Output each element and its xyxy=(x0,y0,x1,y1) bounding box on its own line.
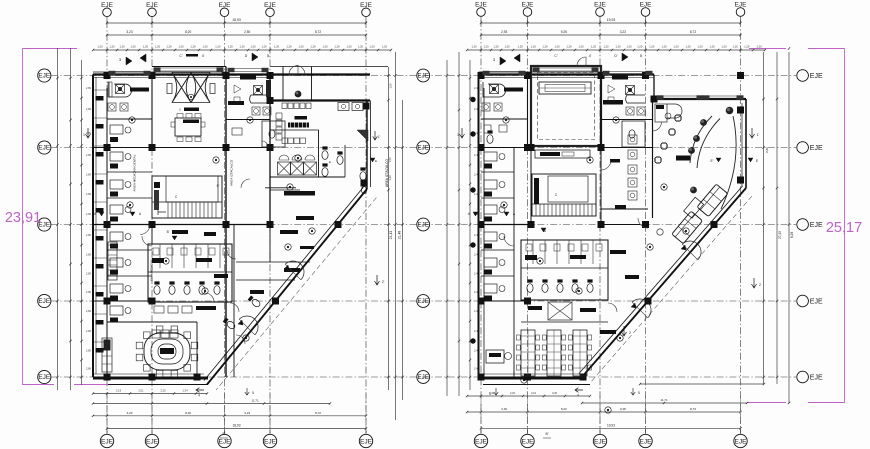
svg-text:EJE: EJE xyxy=(38,374,50,381)
svg-text:18,93: 18,93 xyxy=(232,18,241,22)
svg-text:1,20: 1,20 xyxy=(721,45,727,49)
svg-text:1,20: 1,20 xyxy=(615,45,621,49)
svg-text:8,72: 8,72 xyxy=(315,30,321,34)
svg-text:1,20: 1,20 xyxy=(673,45,679,49)
svg-text:4: 4 xyxy=(198,394,200,398)
svg-text:1,20: 1,20 xyxy=(109,45,115,49)
svg-text:8,72: 8,72 xyxy=(315,411,321,415)
svg-text:21,43: 21,43 xyxy=(389,231,393,240)
svg-text:1,20: 1,20 xyxy=(518,45,524,49)
svg-text:1,20: 1,20 xyxy=(637,45,643,49)
svg-text:2,01: 2,01 xyxy=(138,389,144,393)
svg-text:2,89: 2,89 xyxy=(86,368,91,371)
svg-text:S: S xyxy=(179,108,181,112)
svg-text:4': 4' xyxy=(589,54,592,58)
svg-text:2,19: 2,19 xyxy=(116,389,122,393)
svg-text:AREA MEDICINA DENTAL: AREA MEDICINA DENTAL xyxy=(133,154,137,191)
svg-text:EJE: EJE xyxy=(521,438,534,445)
svg-text:1,20: 1,20 xyxy=(531,45,537,49)
svg-text:1,20: 1,20 xyxy=(190,45,196,49)
svg-text:1': 1' xyxy=(757,133,760,137)
svg-text:2,89: 2,89 xyxy=(86,234,91,237)
svg-text:4': 4' xyxy=(202,54,205,58)
svg-text:1,20: 1,20 xyxy=(286,45,292,49)
svg-text:1,20: 1,20 xyxy=(493,45,499,49)
svg-text:11,71: 11,71 xyxy=(660,398,668,402)
svg-text:3,23: 3,23 xyxy=(127,411,133,415)
svg-text:8,73: 8,73 xyxy=(690,407,696,411)
svg-text:AREA IZTACALCO: AREA IZTACALCO xyxy=(230,159,234,186)
svg-text:2,89: 2,89 xyxy=(86,254,91,257)
svg-text:1,34: 1,34 xyxy=(182,389,188,393)
svg-text:2: 2 xyxy=(759,283,761,287)
svg-text:EJE: EJE xyxy=(810,222,823,229)
svg-text:1,20: 1,20 xyxy=(697,45,703,49)
svg-text:EJE: EJE xyxy=(810,375,823,382)
svg-text:EJE: EJE xyxy=(639,438,652,445)
svg-text:EJE: EJE xyxy=(418,145,429,152)
svg-text:8,20: 8,20 xyxy=(561,407,567,411)
svg-text:3,23: 3,23 xyxy=(126,30,132,34)
svg-text:EJE: EJE xyxy=(38,298,50,305)
svg-text:11,71: 11,71 xyxy=(251,399,259,403)
svg-text:E: E xyxy=(329,160,331,164)
svg-text:2,89: 2,89 xyxy=(86,193,91,196)
svg-text:E': E' xyxy=(711,159,714,163)
svg-text:B': B' xyxy=(217,184,220,188)
svg-text:1,20: 1,20 xyxy=(310,45,316,49)
svg-text:5: 5 xyxy=(252,391,254,395)
svg-text:EJE: EJE xyxy=(734,438,747,445)
svg-text:1,20: 1,20 xyxy=(215,45,221,49)
svg-text:1,20: 1,20 xyxy=(239,45,245,49)
svg-text:1,20: 1,20 xyxy=(504,45,510,49)
svg-text:1': 1' xyxy=(378,135,381,139)
svg-text:1,20: 1,20 xyxy=(322,45,328,49)
svg-text:2,89: 2,89 xyxy=(86,330,91,333)
svg-text:1,20: 1,20 xyxy=(603,45,609,49)
svg-text:1,20: 1,20 xyxy=(733,45,739,49)
svg-text:2,89: 2,89 xyxy=(86,154,91,157)
svg-text:EJE: EJE xyxy=(418,298,429,305)
svg-text:1,50: 1,50 xyxy=(389,83,393,89)
svg-text:1,20: 1,20 xyxy=(261,45,267,49)
svg-text:1,20: 1,20 xyxy=(250,45,256,49)
svg-text:1,20: 1,20 xyxy=(97,45,103,49)
svg-text:1,20: 1,20 xyxy=(382,45,388,49)
svg-text:2: 2 xyxy=(629,331,631,335)
svg-text:2,30: 2,30 xyxy=(501,407,507,411)
svg-text:2,89: 2,89 xyxy=(86,213,91,216)
svg-text:1,20: 1,20 xyxy=(591,45,597,49)
svg-text:1,20: 1,20 xyxy=(578,45,584,49)
svg-text:21,48: 21,48 xyxy=(398,231,402,240)
svg-text:2,89: 2,89 xyxy=(86,273,91,276)
svg-text:B': B' xyxy=(167,230,170,234)
svg-text:2': 2' xyxy=(382,280,385,284)
svg-text:SALA MEDICINA: SALA MEDICINA xyxy=(150,259,154,281)
svg-text:EJE: EJE xyxy=(146,438,159,445)
svg-text:2,89: 2,89 xyxy=(86,174,91,177)
svg-text:1: 1 xyxy=(457,133,459,137)
svg-text:2,20: 2,20 xyxy=(160,389,166,393)
svg-text:1,20: 1,20 xyxy=(709,45,715,49)
svg-text:1,20: 1,20 xyxy=(119,45,125,49)
svg-text:EJE: EJE xyxy=(810,145,823,152)
svg-text:1,20: 1,20 xyxy=(542,45,548,49)
svg-text:1,20: 1,20 xyxy=(202,45,208,49)
svg-text:2,89: 2,89 xyxy=(86,350,91,353)
svg-text:1,43: 1,43 xyxy=(388,175,392,181)
svg-text:1,20: 1,20 xyxy=(298,45,304,49)
svg-text:23,91: 23,91 xyxy=(5,210,41,226)
svg-text:3,38: 3,38 xyxy=(620,407,626,411)
svg-text:8,72: 8,72 xyxy=(690,30,696,34)
svg-text:3,01: 3,01 xyxy=(531,391,537,395)
svg-text:3: 3 xyxy=(489,392,491,396)
svg-text:1,20: 1,20 xyxy=(566,45,572,49)
svg-text:D': D' xyxy=(614,54,618,58)
svg-text:1,20: 1,20 xyxy=(334,45,340,49)
svg-text:1,20: 1,20 xyxy=(554,45,560,49)
svg-text:EJE: EJE xyxy=(810,299,823,306)
svg-text:1,20: 1,20 xyxy=(626,45,632,49)
svg-text:1,50: 1,50 xyxy=(388,157,392,163)
svg-text:1,20: 1,20 xyxy=(274,45,280,49)
svg-text:1,20: 1,20 xyxy=(744,45,750,49)
svg-text:C': C' xyxy=(554,54,558,58)
svg-text:B': B' xyxy=(222,432,225,436)
svg-text:EJE: EJE xyxy=(475,438,488,445)
svg-text:1,20: 1,20 xyxy=(346,45,352,49)
svg-text:1,20: 1,20 xyxy=(178,45,184,49)
svg-text:1,20: 1,20 xyxy=(143,45,149,49)
svg-text:2,93: 2,93 xyxy=(501,30,507,34)
svg-text:3,30: 3,30 xyxy=(552,391,558,395)
svg-text:EJE: EJE xyxy=(594,438,607,445)
svg-text:3,23: 3,23 xyxy=(244,411,250,415)
svg-text:1,20: 1,20 xyxy=(471,45,477,49)
svg-text:2,89: 2,89 xyxy=(86,291,91,294)
svg-text:EJE: EJE xyxy=(418,222,429,229)
svg-text:EJE: EJE xyxy=(38,145,50,152)
svg-text:25,17: 25,17 xyxy=(826,220,862,236)
svg-text:1,20: 1,20 xyxy=(166,45,172,49)
svg-text:EJE: EJE xyxy=(360,438,373,445)
svg-text:9,26: 9,26 xyxy=(561,30,567,34)
svg-text:27,45: 27,45 xyxy=(778,231,782,239)
svg-text:1,20: 1,20 xyxy=(756,45,762,49)
svg-text:2,89: 2,89 xyxy=(86,87,91,90)
svg-text:18,93: 18,93 xyxy=(233,424,241,428)
svg-text:19,93: 19,93 xyxy=(607,18,616,22)
svg-text:1,20: 1,20 xyxy=(369,45,375,49)
svg-text:8,28: 8,28 xyxy=(790,232,794,238)
svg-text:EJE: EJE xyxy=(101,438,114,445)
svg-text:1,20: 1,20 xyxy=(228,45,234,49)
svg-text:1,20: 1,20 xyxy=(685,45,691,49)
svg-text:1: 1 xyxy=(83,133,85,137)
svg-text:8,86: 8,86 xyxy=(765,147,769,153)
svg-text:EJE: EJE xyxy=(38,73,50,80)
svg-text:EJE: EJE xyxy=(418,73,429,80)
svg-text:3,23: 3,23 xyxy=(620,30,626,34)
svg-text:8,40: 8,40 xyxy=(185,411,191,415)
svg-text:1,20: 1,20 xyxy=(155,45,161,49)
svg-text:1,20: 1,20 xyxy=(358,45,364,49)
svg-text:EJE: EJE xyxy=(810,73,823,80)
svg-text:1,20: 1,20 xyxy=(649,45,655,49)
svg-text:C': C' xyxy=(179,54,183,58)
svg-text:EJE: EJE xyxy=(264,438,277,445)
svg-text:8,20: 8,20 xyxy=(185,30,191,34)
svg-text:2,89: 2,89 xyxy=(86,108,91,111)
svg-text:19,93: 19,93 xyxy=(607,423,615,427)
svg-text:1,20: 1,20 xyxy=(130,45,136,49)
svg-text:EJE: EJE xyxy=(418,374,429,381)
svg-text:EJE: EJE xyxy=(218,438,231,445)
svg-text:2,20: 2,20 xyxy=(510,391,516,395)
svg-text:E: E xyxy=(375,159,377,163)
svg-text:2,50: 2,50 xyxy=(244,30,250,34)
svg-text:1,20: 1,20 xyxy=(483,45,489,49)
svg-text:1,20: 1,20 xyxy=(661,45,667,49)
svg-text:2,89: 2,89 xyxy=(86,310,91,313)
svg-text:B': B' xyxy=(545,432,548,436)
svg-text:4: 4 xyxy=(577,394,579,398)
svg-text:5: 5 xyxy=(638,391,640,395)
